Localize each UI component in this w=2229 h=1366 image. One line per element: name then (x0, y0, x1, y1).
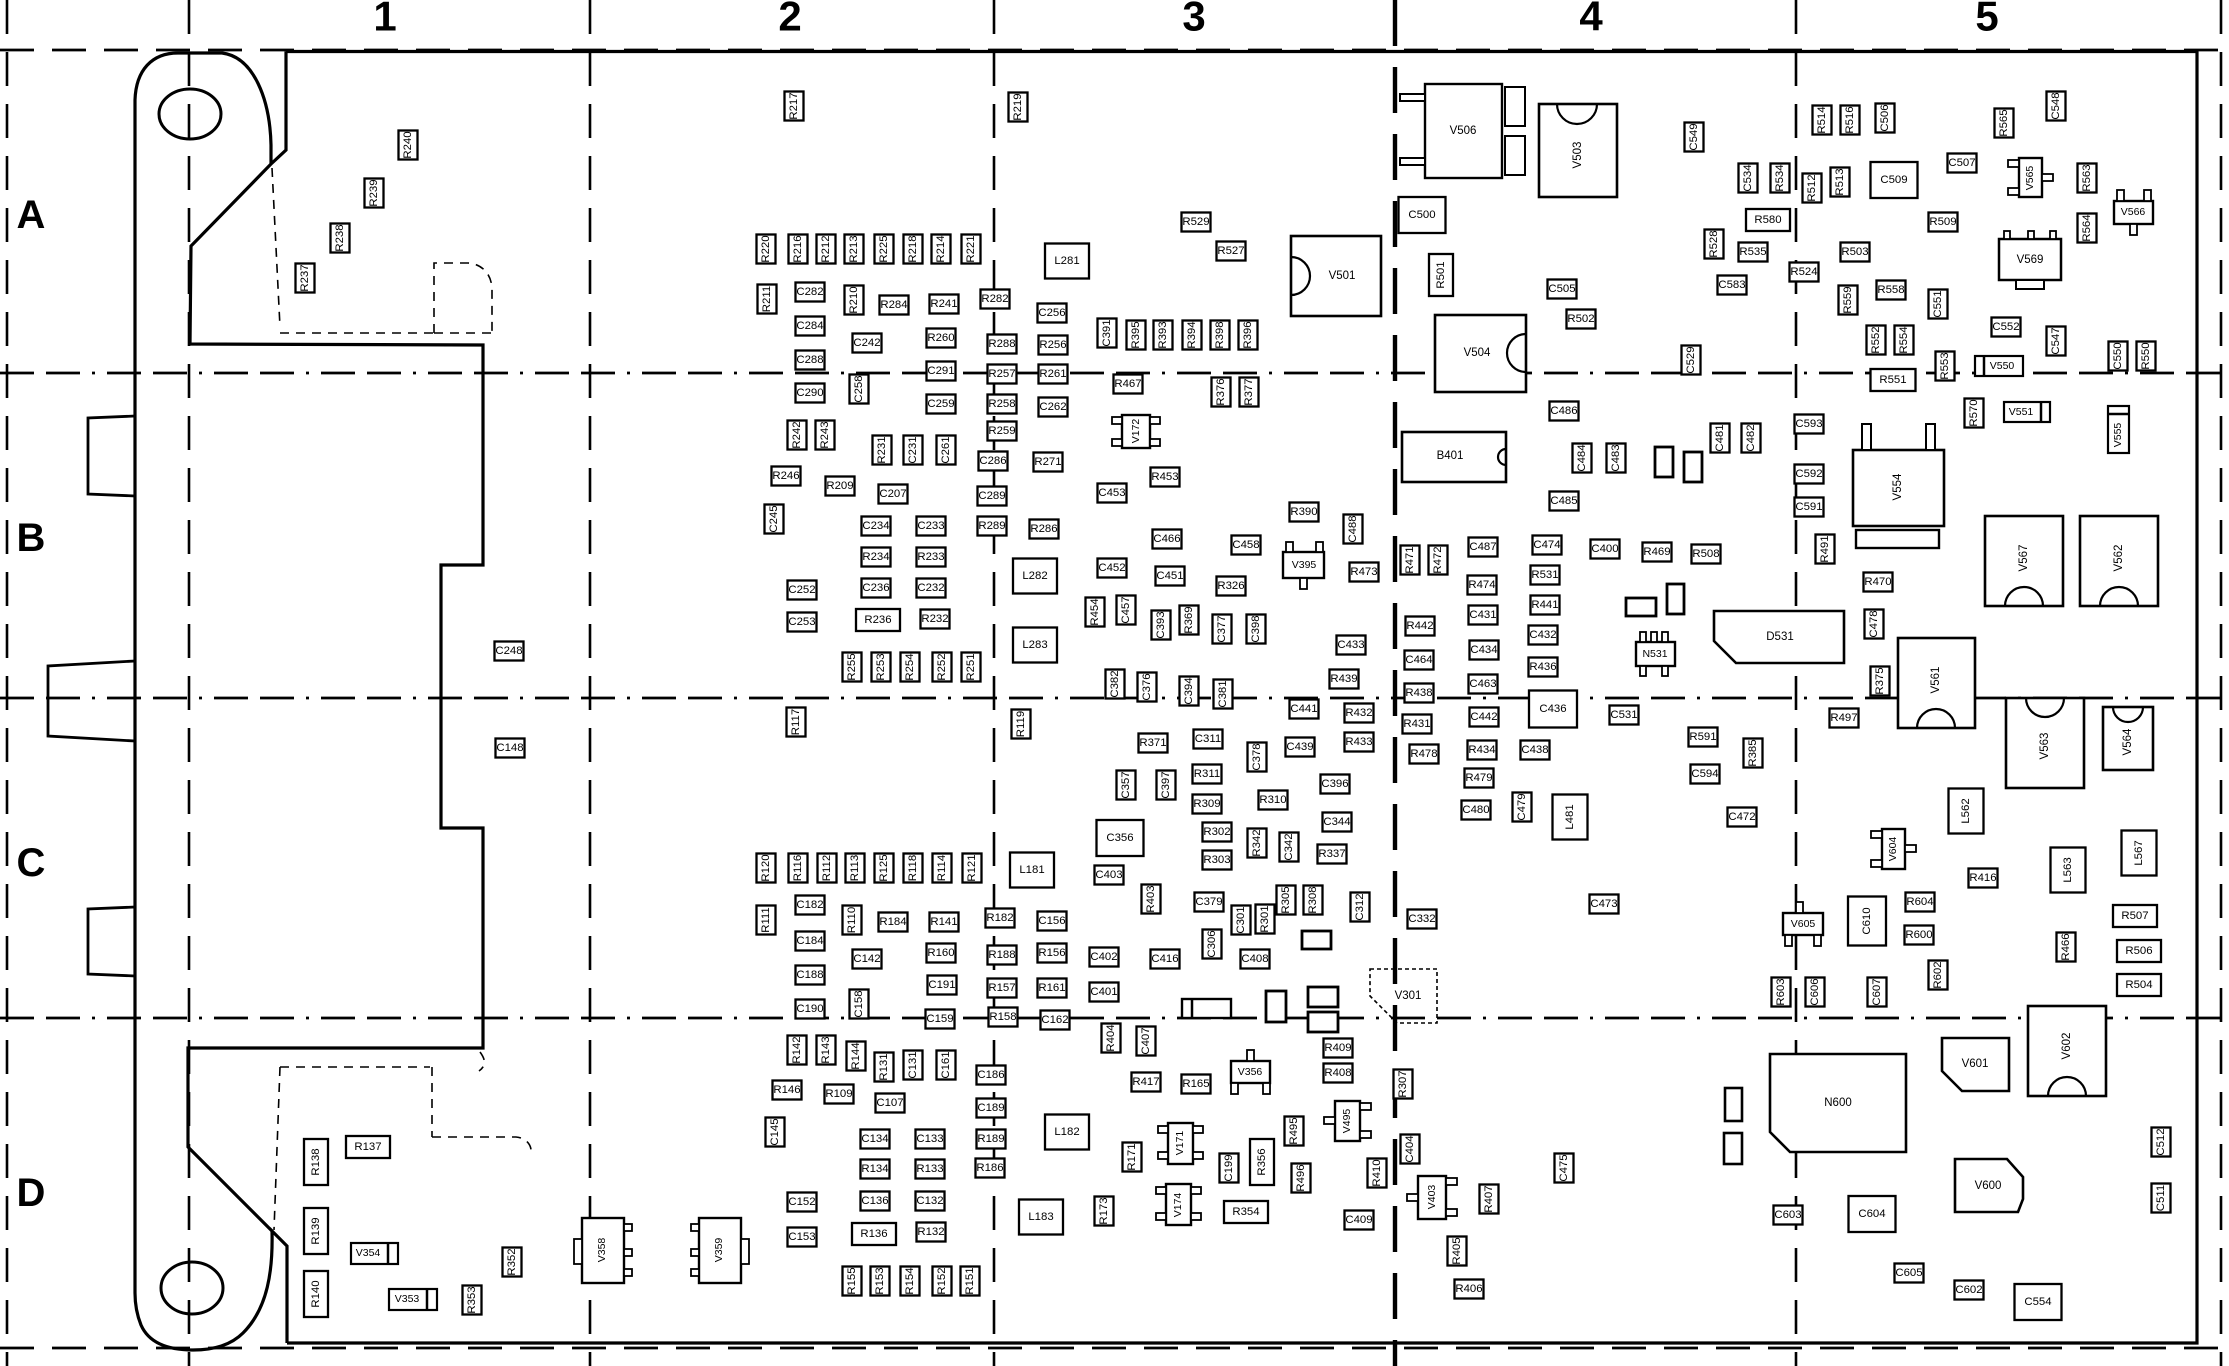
capacitor C398 (1247, 615, 1266, 644)
resistor R501 (1429, 254, 1453, 296)
svg-text:L182: L182 (1054, 1126, 1079, 1138)
svg-text:C332: C332 (1408, 913, 1435, 925)
resistor R234 (862, 548, 891, 567)
svg-text:C548: C548 (2050, 92, 2062, 119)
svg-text:R225: R225 (878, 235, 890, 262)
resistor R603 (1772, 978, 1791, 1007)
resistor R551 (1871, 369, 1916, 391)
svg-text:R432: R432 (1345, 707, 1372, 719)
svg-text:R136: R136 (860, 1228, 887, 1240)
resistor R507 (2113, 905, 2157, 927)
svg-text:R395: R395 (1130, 321, 1142, 348)
capacitor C473 (1590, 895, 1619, 914)
svg-text:C311: C311 (1195, 733, 1221, 745)
svg-text:C547: C547 (2050, 327, 2062, 354)
resistor R131 (875, 1053, 894, 1082)
unlabeled rect pair right of C483 a (1655, 447, 1673, 477)
capacitor C591 (1795, 498, 1824, 517)
svg-text:C441: C441 (1290, 703, 1317, 715)
capacitor C431 (1469, 606, 1498, 625)
resistor R260 (927, 329, 956, 348)
diode D531 (1714, 611, 1844, 663)
svg-text:R305: R305 (1280, 886, 1292, 913)
capacitor C282 (796, 283, 825, 302)
capacitor C481 (1711, 424, 1730, 453)
svg-text:R436: R436 (1529, 661, 1556, 673)
capacitor C397 (1157, 771, 1176, 800)
svg-text:R529: R529 (1182, 216, 1209, 228)
svg-text:R140: R140 (310, 1280, 322, 1307)
svg-text:V554: V554 (1892, 473, 1904, 500)
resistor R154 (901, 1267, 920, 1296)
svg-text:R238: R238 (334, 224, 346, 251)
capacitor C436 (1529, 691, 1577, 728)
svg-text:N531: N531 (1642, 648, 1667, 660)
svg-text:C472: C472 (1728, 811, 1755, 823)
resistor R469 (1643, 543, 1672, 562)
svg-text:R558: R558 (1877, 284, 1904, 296)
svg-text:V356: V356 (1238, 1066, 1263, 1078)
capacitor C583 (1718, 276, 1747, 295)
diode V555 (2108, 406, 2129, 453)
svg-text:R214: R214 (935, 235, 947, 262)
svg-text:C439: C439 (1286, 741, 1313, 753)
svg-text:V565: V565 (2024, 166, 2036, 191)
resistor R256 (1039, 336, 1068, 355)
svg-text:R219: R219 (1012, 93, 1024, 120)
svg-text:5: 5 (1975, 0, 1998, 40)
svg-text:C288: C288 (796, 354, 823, 366)
capacitor C404 (1401, 1135, 1420, 1164)
svg-text:V563: V563 (2039, 733, 2051, 760)
svg-text:C464: C464 (1405, 654, 1432, 666)
resistor R376 (1212, 378, 1231, 407)
mounting hole bottom (161, 1262, 223, 1314)
capacitor C602 (1955, 1281, 1984, 1300)
resistor R120 (757, 854, 776, 883)
svg-text:C505: C505 (1548, 283, 1575, 295)
capacitor C604 (1849, 1196, 1896, 1232)
svg-text:R256: R256 (1039, 339, 1066, 351)
svg-text:A: A (17, 193, 46, 237)
resistor R353 (463, 1286, 482, 1315)
svg-text:C554: C554 (2024, 1296, 2051, 1308)
unlabeled rect near N531 horizontal (1626, 598, 1656, 616)
resistor R311 (1193, 765, 1222, 784)
svg-text:C248: C248 (495, 645, 522, 657)
svg-text:C431: C431 (1469, 609, 1496, 621)
capacitor C483 (1607, 444, 1626, 473)
svg-text:C583: C583 (1718, 279, 1745, 291)
svg-text:C473: C473 (1590, 898, 1617, 910)
svg-text:V564: V564 (2122, 728, 2134, 755)
resistor R257 (988, 365, 1017, 384)
resistor R408 (1324, 1064, 1353, 1083)
resistor R243 (816, 421, 835, 450)
svg-text:R220: R220 (760, 235, 772, 262)
capacitor C606 (1806, 978, 1825, 1007)
svg-text:V172: V172 (1130, 419, 1142, 444)
svg-text:C591: C591 (1795, 501, 1822, 513)
svg-text:R137: R137 (354, 1141, 381, 1153)
svg-text:R133: R133 (916, 1163, 943, 1175)
svg-text:R507: R507 (2121, 910, 2148, 922)
resistor R160 (927, 944, 956, 963)
svg-text:R257: R257 (988, 368, 1015, 380)
resistor R524 (1790, 263, 1819, 282)
svg-text:R110: R110 (846, 907, 858, 933)
svg-text:C131: C131 (907, 1051, 919, 1078)
resistor R218 (904, 235, 923, 264)
resistor R112 (818, 854, 837, 883)
grid row line bottom (0, 1347, 2229, 1350)
transistor V301 dashed outline (1370, 969, 1437, 1023)
capacitor C242 (853, 334, 882, 353)
capacitor C159 (926, 1010, 955, 1029)
IC V600 (1955, 1159, 2023, 1212)
capacitor C401 (1090, 983, 1119, 1002)
svg-text:R138: R138 (310, 1148, 322, 1175)
resistor R209 (826, 477, 855, 496)
capacitor C207 (879, 485, 908, 504)
IC N531 (1636, 632, 1675, 676)
svg-text:R403: R403 (1145, 885, 1157, 912)
svg-text:R564: R564 (2081, 214, 2093, 241)
capacitor C487 (1469, 538, 1498, 557)
svg-text:R512: R512 (1806, 174, 1818, 201)
svg-text:C231: C231 (907, 436, 919, 463)
svg-text:R472: R472 (1432, 546, 1444, 573)
svg-text:C484: C484 (1576, 444, 1588, 471)
svg-text:C191: C191 (928, 979, 955, 991)
svg-text:R369: R369 (1183, 606, 1195, 633)
svg-text:V353: V353 (395, 1293, 420, 1305)
svg-text:D531: D531 (1766, 631, 1794, 643)
resistor R394 (1183, 321, 1202, 350)
svg-text:C253: C253 (788, 616, 815, 628)
unlabeled rect left of N600 a (1725, 1088, 1742, 1121)
capacitor C142 (853, 950, 882, 969)
resistor R375 (1871, 667, 1890, 696)
svg-text:R161: R161 (1038, 982, 1065, 994)
resistor R600 (1905, 926, 1934, 945)
svg-text:C402: C402 (1090, 951, 1117, 963)
svg-text:V602: V602 (2061, 1033, 2073, 1060)
svg-text:R240: R240 (402, 131, 414, 158)
unlabeled rect pair right of C483 b (1684, 452, 1702, 482)
capacitor C153 (788, 1228, 817, 1247)
capacitor C148 (496, 739, 525, 758)
svg-text:C549: C549 (1688, 123, 1700, 150)
svg-text:C396: C396 (1321, 778, 1348, 790)
svg-text:V359: V359 (713, 1238, 725, 1263)
svg-text:4: 4 (1579, 0, 1603, 40)
resistor R514 (1813, 106, 1832, 135)
svg-text:C438: C438 (1521, 744, 1548, 756)
svg-text:R118: R118 (907, 855, 919, 881)
resistor R416 (1969, 869, 1998, 888)
capacitor C131 (904, 1051, 923, 1080)
resistor R110 (843, 906, 862, 935)
svg-text:R237: R237 (299, 264, 311, 291)
resistor R438 (1405, 684, 1434, 703)
svg-text:C262: C262 (1039, 401, 1066, 413)
resistor R467 (1114, 375, 1143, 394)
svg-text:R417: R417 (1132, 1076, 1159, 1088)
transistor V503 (1539, 104, 1617, 197)
capacitor C506 (1876, 104, 1895, 133)
inductor L562 (1949, 789, 1984, 834)
capacitor C463 (1469, 675, 1498, 694)
svg-text:R252: R252 (936, 653, 948, 680)
inductor L281 (1045, 244, 1089, 279)
svg-text:C159: C159 (926, 1013, 953, 1025)
capacitor C286 (979, 452, 1008, 471)
svg-text:R473: R473 (1350, 566, 1377, 578)
svg-text:C190: C190 (796, 1003, 823, 1015)
svg-text:R142: R142 (791, 1036, 803, 1063)
svg-text:R259: R259 (988, 425, 1015, 437)
resistor R552 (1867, 326, 1886, 355)
svg-text:R550: R550 (2140, 342, 2152, 369)
svg-text:R255: R255 (846, 653, 858, 680)
resistor R478 (1410, 745, 1439, 764)
svg-text:R113: R113 (849, 855, 861, 881)
capacitor C382 (1106, 670, 1125, 699)
capacitor C253 (788, 613, 817, 632)
svg-text:R356: R356 (1256, 1148, 1268, 1175)
unlabeled diode left of V301 (1182, 999, 1231, 1018)
svg-text:L481: L481 (1564, 804, 1576, 829)
resistor R591 (1689, 728, 1718, 747)
capacitor C158 (850, 990, 869, 1019)
capacitor C610 (1848, 897, 1886, 946)
svg-text:R210: R210 (848, 286, 860, 313)
capacitor C434 (1470, 641, 1499, 660)
svg-text:C481: C481 (1714, 424, 1726, 451)
resistor R236 (856, 609, 900, 631)
capacitor C442 (1470, 708, 1499, 727)
svg-text:C500: C500 (1408, 209, 1435, 221)
svg-text:C145: C145 (769, 1118, 781, 1145)
resistor R255 (843, 653, 862, 682)
transistor V566 (2114, 190, 2153, 235)
inductor L567 (2122, 831, 2157, 876)
capacitor C156 (1038, 912, 1067, 931)
svg-text:R479: R479 (1465, 772, 1492, 784)
svg-text:C134: C134 (861, 1133, 888, 1145)
resistor R434 (1468, 741, 1497, 760)
resistor R210 (845, 286, 864, 315)
svg-text:C259: C259 (927, 398, 954, 410)
svg-text:R251: R251 (965, 653, 977, 680)
capacitor C379 (1195, 893, 1224, 912)
svg-text:R431: R431 (1403, 718, 1430, 730)
svg-text:R497: R497 (1830, 712, 1857, 724)
svg-text:C376: C376 (1141, 673, 1153, 700)
transistor V358 (574, 1218, 632, 1283)
capacitor C396 (1321, 775, 1350, 794)
board outline: left edge (133, 100, 136, 1293)
resistor R225 (875, 235, 894, 264)
svg-text:C463: C463 (1469, 678, 1496, 690)
resistor R602 (1929, 961, 1948, 990)
svg-text:C433: C433 (1337, 639, 1364, 651)
svg-text:R233: R233 (917, 551, 944, 563)
resistor R393 (1154, 321, 1173, 350)
capacitor C485 (1550, 492, 1579, 511)
capacitor C377 (1213, 615, 1232, 644)
svg-text:C453: C453 (1098, 487, 1125, 499)
svg-text:C234: C234 (862, 520, 889, 532)
svg-text:R495: R495 (1288, 1117, 1300, 1144)
svg-text:R125: R125 (878, 854, 890, 881)
svg-text:R302: R302 (1203, 826, 1230, 838)
capacitor C433 (1337, 636, 1366, 655)
capacitor C344 (1323, 813, 1352, 832)
svg-text:R406: R406 (1455, 1283, 1482, 1295)
svg-text:C594: C594 (1691, 768, 1718, 780)
svg-text:C506: C506 (1879, 104, 1891, 131)
svg-text:R144: R144 (850, 1042, 862, 1069)
resistor R302 (1203, 823, 1232, 842)
svg-text:C282: C282 (796, 286, 823, 298)
resistor R580 (1746, 209, 1790, 231)
svg-text:R409: R409 (1324, 1042, 1351, 1054)
svg-text:C432: C432 (1529, 629, 1556, 641)
resistor R495 (1285, 1117, 1304, 1146)
resistor R171 (1123, 1143, 1142, 1172)
capacitor C262 (1039, 398, 1068, 417)
resistor R396 (1239, 321, 1258, 350)
unlabeled rect center a (1302, 931, 1331, 949)
transistor V171 (1158, 1123, 1203, 1164)
svg-text:C507: C507 (1948, 157, 1975, 169)
svg-text:C607: C607 (1871, 978, 1883, 1005)
svg-text:C153: C153 (788, 1231, 815, 1243)
svg-text:V301: V301 (1395, 990, 1422, 1002)
grid row line A/B (0, 372, 2229, 375)
svg-text:R242: R242 (791, 421, 803, 448)
svg-text:R453: R453 (1151, 471, 1178, 483)
svg-text:L283: L283 (1022, 639, 1047, 651)
svg-text:R307: R307 (1397, 1070, 1409, 1097)
svg-text:R282: R282 (981, 293, 1008, 305)
resistor R116 (789, 854, 808, 883)
resistor R282 (981, 290, 1010, 309)
svg-text:R189: R189 (977, 1133, 1004, 1145)
resistor R337 (1318, 845, 1347, 864)
capacitor C512 (2152, 1128, 2171, 1157)
svg-text:C458: C458 (1232, 539, 1259, 551)
resistor R491 (1816, 535, 1835, 564)
resistor R479 (1465, 769, 1494, 788)
resistor R470 (1864, 573, 1893, 592)
svg-text:R303: R303 (1203, 854, 1230, 866)
svg-text:R116: R116 (792, 855, 804, 881)
svg-text:C488: C488 (1347, 515, 1359, 542)
svg-text:V567: V567 (2018, 545, 2030, 572)
resistor R503 (1841, 243, 1870, 262)
svg-text:C286: C286 (979, 455, 1006, 467)
svg-text:R385: R385 (1747, 739, 1759, 766)
resistor R286 (1030, 520, 1059, 539)
resistor R308 (1304, 886, 1323, 915)
IC V567 (1985, 516, 2063, 606)
svg-text:C452: C452 (1098, 562, 1125, 574)
svg-text:R182: R182 (986, 912, 1013, 924)
resistor R377 (1240, 378, 1259, 407)
svg-text:R156: R156 (1038, 947, 1065, 959)
grid row line C/D (0, 1017, 2229, 1020)
capacitor C376 (1138, 673, 1157, 702)
svg-text:R442: R442 (1406, 620, 1433, 632)
svg-text:C252: C252 (788, 584, 815, 596)
capacitor C464 (1405, 651, 1434, 670)
IC V504 (1435, 315, 1526, 392)
capacitor C357 (1117, 771, 1136, 800)
svg-text:R141: R141 (930, 916, 957, 928)
capacitor C486 (1550, 402, 1579, 421)
capacitor C441 (1290, 700, 1319, 719)
svg-text:C261: C261 (940, 436, 952, 463)
capacitor C407 (1137, 1027, 1156, 1056)
resistor R156 (1038, 944, 1067, 963)
svg-text:R354: R354 (1232, 1206, 1259, 1218)
transistor V403 (1407, 1176, 1457, 1219)
capacitor C403 (1095, 866, 1124, 885)
resistor R559 (1839, 286, 1858, 315)
svg-text:R221: R221 (965, 235, 977, 262)
capacitor C451 (1156, 567, 1185, 586)
svg-text:C: C (17, 841, 46, 885)
IC V501 (1291, 236, 1381, 316)
IC V562 (2080, 516, 2158, 606)
svg-text:C207: C207 (879, 488, 906, 500)
svg-text:C301: C301 (1235, 906, 1247, 933)
svg-text:C534: C534 (1742, 164, 1754, 191)
svg-text:R509: R509 (1929, 216, 1956, 228)
capacitor C190 (796, 1000, 825, 1019)
capacitor C478 (1865, 610, 1884, 639)
capacitor C393 (1152, 611, 1171, 640)
svg-text:V354: V354 (356, 1247, 381, 1259)
resistor R410 (1368, 1159, 1387, 1188)
svg-text:C404: C404 (1404, 1135, 1416, 1162)
unlabeled rect near N531 vertical (1667, 584, 1684, 614)
IC N600 (1770, 1054, 1906, 1152)
grid column border line right (2220, 0, 2223, 1366)
capacitor C234 (862, 517, 891, 536)
inductor L282 (1013, 559, 1057, 594)
transistor V495 (1324, 1101, 1371, 1141)
svg-text:V561: V561 (1930, 667, 1942, 694)
svg-text:V601: V601 (1962, 1058, 1989, 1070)
svg-text:C342: C342 (1283, 833, 1295, 860)
svg-text:R514: R514 (1816, 106, 1828, 133)
connector bump middle (48, 661, 135, 741)
svg-text:C434: C434 (1470, 644, 1497, 656)
svg-text:R146: R146 (773, 1084, 800, 1096)
capacitor C593 (1795, 415, 1824, 434)
svg-text:C401: C401 (1090, 986, 1117, 998)
svg-text:C451: C451 (1156, 570, 1183, 582)
svg-text:R309: R309 (1193, 798, 1220, 810)
svg-text:R407: R407 (1483, 1185, 1495, 1212)
svg-text:V358: V358 (596, 1238, 608, 1263)
svg-text:R301: R301 (1259, 905, 1271, 932)
svg-text:C142: C142 (853, 953, 880, 965)
